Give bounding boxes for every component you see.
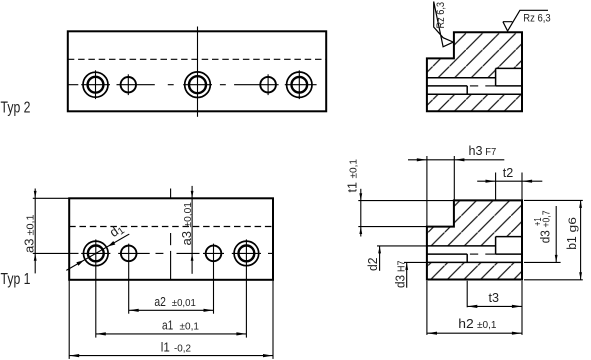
svg-text:±0,1: ±0,1 bbox=[477, 320, 497, 331]
svg-text:a3: a3 bbox=[179, 231, 194, 246]
svg-text:t3: t3 bbox=[489, 290, 500, 305]
svg-text:±0,1: ±0,1 bbox=[26, 215, 37, 236]
svg-text:±0,1: ±0,1 bbox=[180, 322, 200, 333]
svg-text:±0,01: ±0,01 bbox=[183, 202, 194, 228]
svg-text:±0,1: ±0,1 bbox=[349, 159, 360, 179]
svg-text:+1: +1 bbox=[533, 218, 544, 227]
svg-text:a3: a3 bbox=[22, 239, 37, 254]
svg-text:F7: F7 bbox=[485, 147, 496, 158]
svg-text:a1: a1 bbox=[162, 318, 173, 333]
svg-text:Rz 6,3: Rz 6,3 bbox=[523, 12, 550, 24]
svg-text:H7: H7 bbox=[397, 261, 408, 273]
svg-text:±0,01: ±0,01 bbox=[172, 298, 196, 309]
svg-text:a2: a2 bbox=[154, 294, 166, 309]
svg-text:d3: d3 bbox=[393, 275, 408, 288]
svg-text:h3: h3 bbox=[469, 143, 483, 158]
svg-text:t1: t1 bbox=[345, 182, 360, 193]
svg-text:-0,2: -0,2 bbox=[174, 344, 191, 355]
svg-text:Rz 6,3: Rz 6,3 bbox=[435, 2, 447, 29]
svg-text:d3: d3 bbox=[538, 230, 553, 243]
svg-text:h2: h2 bbox=[458, 316, 474, 331]
svg-text:Typ 2: Typ 2 bbox=[1, 99, 31, 116]
svg-text:t2: t2 bbox=[503, 165, 514, 180]
svg-text:d2: d2 bbox=[365, 258, 380, 272]
svg-text:l1: l1 bbox=[161, 340, 170, 355]
svg-text:Typ 1: Typ 1 bbox=[1, 271, 31, 288]
svg-text:b1: b1 bbox=[564, 236, 579, 250]
svg-text:g6: g6 bbox=[567, 217, 579, 233]
